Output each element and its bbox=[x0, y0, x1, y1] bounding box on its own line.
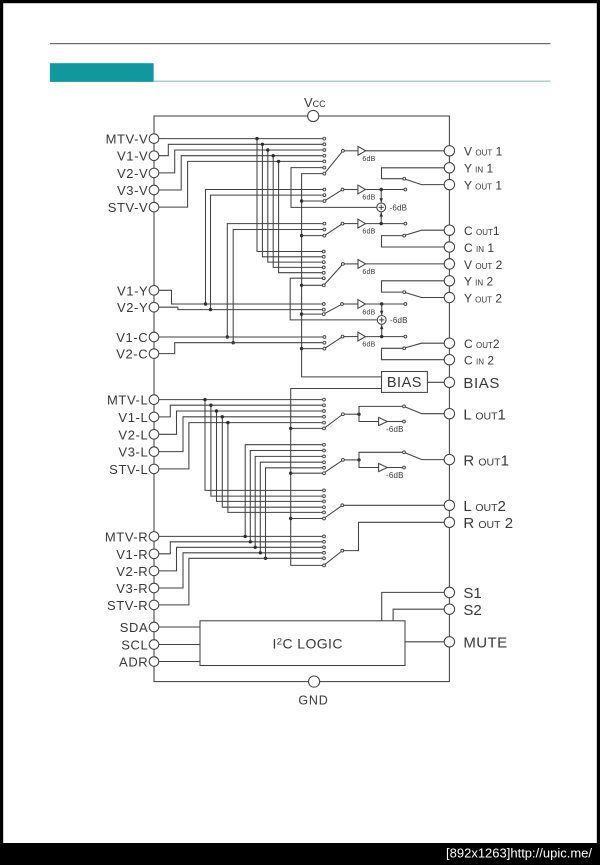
wire V2 mux c6 from sum2 bbox=[290, 278, 377, 320]
dots C buses bbox=[226, 335, 229, 338]
wire L1 c6 row bbox=[291, 427, 323, 429]
pin Y OUT 1 bbox=[444, 179, 454, 189]
junction C2 amp out bbox=[380, 335, 383, 338]
pin S2 bbox=[444, 604, 454, 614]
left pin labels bbox=[105, 132, 148, 670]
pin STV-L bbox=[149, 464, 159, 474]
contact L1 direct throw bbox=[403, 405, 406, 408]
svg-text:6dB: 6dB bbox=[362, 310, 375, 317]
mux L2 wiper bbox=[325, 506, 341, 517]
svg-text:S2: S2 bbox=[463, 602, 481, 619]
svg-text:MTV-R: MTV-R bbox=[105, 529, 148, 544]
pin MUTE bbox=[444, 637, 454, 647]
pin R OUT1 bbox=[444, 454, 454, 464]
pin MTV-V bbox=[149, 134, 159, 144]
wire audio bias bus bbox=[291, 389, 382, 566]
pin SDA bbox=[149, 622, 159, 632]
svg-text:ADR: ADR bbox=[119, 655, 148, 670]
junction L1 bbox=[357, 413, 360, 416]
wire MUTE bbox=[405, 641, 444, 643]
amp 6dB V OUT 1 bbox=[358, 146, 366, 155]
wire wiper to amp bbox=[343, 303, 358, 305]
switch R OUT1 bbox=[405, 453, 444, 460]
svg-text:SDA: SDA bbox=[120, 620, 149, 635]
wire V1-Y bus up bbox=[206, 190, 324, 305]
contact Y1 amp throw bbox=[404, 188, 407, 191]
pin V2-L bbox=[149, 430, 159, 440]
wire Y1 amp output bbox=[366, 189, 405, 191]
wire amp out bbox=[387, 421, 402, 423]
wire R1 attenuated branch bbox=[359, 460, 379, 468]
junction Y1 amp out bbox=[380, 188, 383, 191]
pin C OUT 1 bbox=[444, 225, 454, 235]
wire C IN 2 bypass bbox=[382, 348, 445, 359]
wire MTV-L row bbox=[159, 399, 323, 401]
pin Y IN 1 bbox=[444, 163, 454, 173]
amp 6dB C2 bbox=[358, 332, 366, 341]
pin V2-Y bbox=[149, 302, 159, 312]
wire R2 wiper to pin bbox=[344, 522, 445, 550]
svg-text:S1: S1 bbox=[463, 585, 481, 602]
contact R1 direct throw bbox=[403, 451, 406, 454]
svg-text:-6dB: -6dB bbox=[386, 471, 404, 480]
pin C IN 1 bbox=[444, 242, 454, 252]
pin V1-Y bbox=[149, 286, 159, 296]
wire STV-L row bbox=[159, 423, 323, 469]
svg-text:V2-R: V2-R bbox=[116, 564, 148, 579]
svg-text:V2-Y: V2-Y bbox=[117, 300, 148, 315]
arrow into sum2 bottom bbox=[380, 325, 383, 329]
contact C IN 2 throw bbox=[403, 347, 406, 350]
contact C1 amp throw bbox=[404, 222, 407, 225]
pin SCL bbox=[149, 640, 159, 650]
svg-text:-6dB: -6dB bbox=[386, 425, 404, 434]
dots L rows bbox=[203, 398, 206, 401]
svg-text:V3-V: V3-V bbox=[117, 183, 148, 198]
wire V1-Y row bbox=[159, 290, 323, 304]
pin V3-V bbox=[149, 185, 159, 195]
wire C1 mux c3 bbox=[302, 235, 324, 237]
Vcc pin bbox=[308, 110, 319, 121]
video bus vertical STV-V bbox=[279, 161, 323, 272]
wire C1 amp output bbox=[366, 223, 405, 225]
svg-text:STV-V: STV-V bbox=[108, 200, 149, 215]
svg-text:V3-R: V3-R bbox=[116, 581, 148, 596]
wire L1 direct branch bbox=[359, 406, 403, 414]
pin V OUT 2 bbox=[444, 259, 454, 269]
mux L2 contacts bbox=[323, 489, 326, 492]
header rule bbox=[50, 43, 551, 44]
pin C OUT 2 bbox=[444, 338, 454, 348]
svg-text:STV-L: STV-L bbox=[109, 462, 148, 477]
amp 6dB Y2 bbox=[358, 300, 366, 309]
wire wiper to junction bbox=[344, 413, 359, 415]
mux V2 contacts bbox=[322, 250, 325, 253]
svg-text:V3-L: V3-L bbox=[118, 445, 148, 460]
switch L OUT1 bbox=[405, 407, 444, 414]
mux R1 wiper bbox=[325, 461, 342, 472]
svg-text:6dB: 6dB bbox=[362, 269, 375, 276]
wire V3-L bus bbox=[222, 417, 322, 507]
pin L OUT1 bbox=[444, 409, 454, 419]
switch Y OUT 1 bbox=[406, 179, 445, 184]
svg-text:V1-R: V1-R bbox=[116, 547, 148, 562]
junction Y2 amp out bbox=[380, 302, 383, 305]
pin V1-V bbox=[149, 151, 159, 161]
plus sign bbox=[379, 205, 384, 210]
switch C OUT 2 bbox=[406, 343, 445, 348]
wire STV-V row bbox=[159, 161, 323, 207]
contact Y IN 2 throw bbox=[403, 291, 406, 294]
IC body rectangle bbox=[154, 116, 449, 682]
switch C OUT 1 bbox=[406, 230, 445, 235]
amp 6dB V OUT 2 bbox=[358, 260, 366, 269]
wire SDA bbox=[159, 626, 200, 628]
pin V3-R bbox=[149, 583, 159, 593]
amp 6dB Y1 bbox=[358, 185, 366, 194]
wire amp to V OUT 1 pin bbox=[366, 150, 445, 152]
svg-text:V2-C: V2-C bbox=[116, 347, 148, 362]
pin MTV-L bbox=[149, 395, 159, 405]
mux C1 wiper bbox=[326, 224, 342, 234]
mux L1 wiper bbox=[325, 415, 342, 428]
wire V1 mux c6 from sum1 bbox=[291, 168, 377, 208]
svg-text:6dB: 6dB bbox=[362, 156, 375, 163]
pin V3-L bbox=[149, 447, 159, 457]
wire V2-Y bus up bbox=[211, 195, 324, 310]
contact L1 att throw bbox=[403, 420, 406, 423]
arrow into sum1 bottom bbox=[380, 212, 383, 216]
wire V1-C bus up bbox=[227, 224, 323, 337]
summing node 1 vertical top bbox=[380, 190, 382, 203]
wire wiper to junction bbox=[344, 459, 359, 461]
wire C IN 1 bypass bbox=[382, 236, 445, 247]
svg-text:6dB: 6dB bbox=[362, 342, 375, 349]
wire wiper to amp bbox=[344, 336, 358, 338]
pin ADR bbox=[149, 657, 159, 667]
GND pin bbox=[309, 676, 320, 687]
video bus vertical V1-V bbox=[262, 144, 322, 256]
wire Y IN 2 bypass bbox=[382, 281, 445, 292]
svg-text:BIAS: BIAS bbox=[387, 375, 422, 391]
wire L2 wiper to pin bbox=[344, 504, 445, 506]
contact C2 amp throw bbox=[404, 335, 407, 338]
wire L2 c6 row bbox=[291, 518, 323, 520]
wire MTV-L bus bbox=[205, 400, 323, 491]
mux Y2 contacts bbox=[322, 303, 325, 306]
contact Y IN 1 throw bbox=[403, 177, 406, 180]
wire MTV-R bus up bbox=[245, 445, 322, 537]
junction R1 bbox=[357, 458, 360, 461]
wire S1 bbox=[382, 592, 445, 620]
pin STV-V bbox=[149, 202, 159, 212]
arrow into sum1 top bbox=[380, 198, 383, 202]
wire V2-C bus up bbox=[233, 230, 323, 343]
mux C1 contacts bbox=[323, 222, 326, 225]
wire V1-R bus up bbox=[250, 451, 322, 542]
BIAS box bbox=[382, 372, 428, 393]
amp 6dB C1 bbox=[358, 219, 366, 228]
amp -6dB R1 bbox=[379, 463, 388, 471]
wire V1-R row bbox=[159, 542, 323, 554]
wire V2-R bus up bbox=[255, 456, 322, 547]
bias bus dots bbox=[300, 199, 303, 202]
summing node 1 vertical bottom bbox=[380, 212, 382, 223]
pin V2-V bbox=[149, 168, 159, 178]
wire V1-L row bbox=[159, 405, 323, 417]
wire V1-L bus bbox=[211, 405, 323, 496]
wire wiper to amp bbox=[344, 189, 358, 191]
contact Y2 amp throw bbox=[404, 303, 407, 306]
contact C IN 1 throw bbox=[403, 234, 406, 237]
thin teal rule bbox=[154, 81, 551, 82]
mux V1 wiper bbox=[325, 152, 342, 173]
svg-text:V1-L: V1-L bbox=[118, 410, 148, 425]
pin V1-R bbox=[149, 549, 159, 559]
svg-text:6dB: 6dB bbox=[362, 195, 375, 202]
dots R rows bbox=[244, 535, 247, 538]
svg-text:MTV-V: MTV-V bbox=[106, 132, 149, 147]
mux C2 contacts bbox=[323, 336, 326, 339]
svg-text:SCL: SCL bbox=[121, 638, 148, 653]
wire V2 mux c7 from bias bus bbox=[302, 284, 323, 286]
summing node 2 vertical bottom bbox=[381, 325, 383, 337]
page border frame bbox=[0, 0, 600, 3]
svg-text:-6dB: -6dB bbox=[390, 203, 408, 212]
svg-text:[892x1263]http://upic.me/: [892x1263]http://upic.me/ bbox=[446, 846, 592, 861]
video bus vertical V2-V bbox=[268, 150, 323, 262]
mux Y2 wiper bbox=[325, 305, 341, 314]
wire wiper to amp bbox=[344, 263, 358, 265]
wire V1-C row bbox=[159, 336, 323, 338]
wire V2-C row bbox=[159, 343, 323, 354]
wire V3-R bus up bbox=[260, 462, 322, 553]
wire wiper to amp bbox=[344, 223, 358, 225]
summing circle 2 bbox=[377, 316, 386, 325]
video bus vertical V3-V bbox=[273, 156, 322, 268]
pin V OUT 1 bbox=[444, 146, 454, 156]
wire L1 attenuated branch bbox=[359, 414, 379, 421]
svg-text:V2-L: V2-L bbox=[118, 427, 148, 442]
plus sign bbox=[379, 317, 384, 322]
wire Y2 amp output bbox=[366, 303, 405, 305]
svg-text:MTV-L: MTV-L bbox=[107, 393, 148, 408]
wire V2-L bus bbox=[217, 411, 323, 501]
pin Y OUT 2 bbox=[444, 292, 454, 302]
wire ADR bbox=[159, 661, 200, 663]
pin C IN 2 bbox=[444, 355, 454, 365]
junction dots video rows bbox=[255, 137, 258, 140]
wire MTV-V row bbox=[159, 138, 323, 140]
bottom watermark bar bbox=[0, 843, 600, 865]
wire R1 direct branch bbox=[359, 452, 403, 460]
svg-text:6dB: 6dB bbox=[362, 229, 375, 236]
wire V2-Y row bbox=[159, 307, 323, 309]
wire Y IN 1 bypass bbox=[382, 168, 445, 179]
wire STV-R row bbox=[159, 558, 323, 605]
wire SCL bbox=[159, 644, 200, 646]
svg-text:GND: GND bbox=[298, 694, 328, 708]
junction C1 amp out bbox=[380, 222, 383, 225]
svg-text:-6dB: -6dB bbox=[390, 316, 408, 325]
wire BIAS box to pin bbox=[427, 381, 444, 383]
pin R OUT2 bbox=[444, 517, 454, 527]
mux R2 contacts bbox=[323, 535, 326, 538]
summing node 2 vertical top bbox=[381, 304, 383, 315]
mux L1 contacts bbox=[323, 398, 326, 401]
switch Y OUT 2 bbox=[406, 293, 445, 298]
wire V3-R row bbox=[159, 553, 323, 588]
amp -6dB L1 bbox=[379, 417, 388, 425]
pin S1 bbox=[444, 587, 454, 597]
wire V1 mux c7 from bias bus bbox=[302, 174, 382, 377]
svg-text:BIAS: BIAS bbox=[463, 375, 500, 392]
summing circle 1 bbox=[377, 203, 386, 212]
mux R1 contacts bbox=[323, 443, 326, 446]
mux C2 wiper bbox=[326, 337, 342, 347]
video bus vertical MTV-V bbox=[257, 139, 323, 252]
svg-text:V1-V: V1-V bbox=[117, 149, 148, 164]
svg-text:V1-C: V1-C bbox=[116, 330, 148, 345]
wire V2-R row bbox=[159, 547, 323, 571]
svg-text:STV-R: STV-R bbox=[107, 598, 148, 613]
wire amp to V OUT 2 pin bbox=[366, 263, 445, 265]
contact R1 att throw bbox=[403, 466, 406, 469]
wire amp out bbox=[387, 467, 402, 469]
pin V2-C bbox=[149, 349, 159, 359]
wire V3-L row bbox=[159, 417, 323, 452]
wire C2 mux c3 bbox=[302, 348, 324, 350]
pin L OUT2 bbox=[444, 500, 454, 510]
pin V2-R bbox=[149, 566, 159, 576]
pin MTV-R bbox=[149, 532, 159, 542]
wire V3-V row bbox=[159, 156, 323, 190]
teal header bar bbox=[50, 63, 154, 82]
dots Y buses bbox=[204, 302, 207, 305]
mux Y1 wiper bbox=[326, 190, 342, 200]
pin STV-R bbox=[149, 600, 159, 610]
mux V2 wiper bbox=[325, 265, 342, 284]
pin Y IN 2 bbox=[444, 276, 454, 286]
svg-text:MUTE: MUTE bbox=[463, 635, 507, 652]
svg-text:I2C LOGIC: I2C LOGIC bbox=[273, 636, 343, 652]
pin BIAS bbox=[444, 377, 454, 387]
wire S2 bbox=[393, 609, 444, 621]
wire STV-R bus up bbox=[266, 468, 323, 559]
wire Y2 mux c3 bbox=[302, 313, 323, 315]
audio bus dots bbox=[289, 427, 292, 430]
pin V1-C bbox=[149, 332, 159, 342]
svg-text:V1-Y: V1-Y bbox=[117, 283, 148, 298]
arrow into sum2 top bbox=[380, 311, 383, 315]
right pin labels bbox=[463, 145, 513, 652]
wire V2-V row bbox=[159, 150, 323, 173]
I2C LOGIC box bbox=[200, 621, 405, 666]
wire wiper to amp bbox=[344, 150, 358, 152]
wire STV-L bus bbox=[228, 423, 323, 513]
mux R2 wiper bbox=[325, 552, 341, 565]
wire Y1 mux c3 bbox=[302, 200, 324, 202]
wire C2 amp output bbox=[366, 336, 405, 338]
mux V1 contacts bbox=[323, 137, 326, 140]
svg-text:V2-V: V2-V bbox=[117, 166, 148, 181]
wire V1-V row bbox=[159, 144, 323, 155]
pin V1-L bbox=[149, 412, 159, 422]
wire R1 c6 row bbox=[291, 472, 323, 474]
wire V2-L row bbox=[159, 411, 323, 434]
wire MTV-R row bbox=[159, 535, 323, 537]
mux Y1 contacts bbox=[323, 188, 326, 191]
